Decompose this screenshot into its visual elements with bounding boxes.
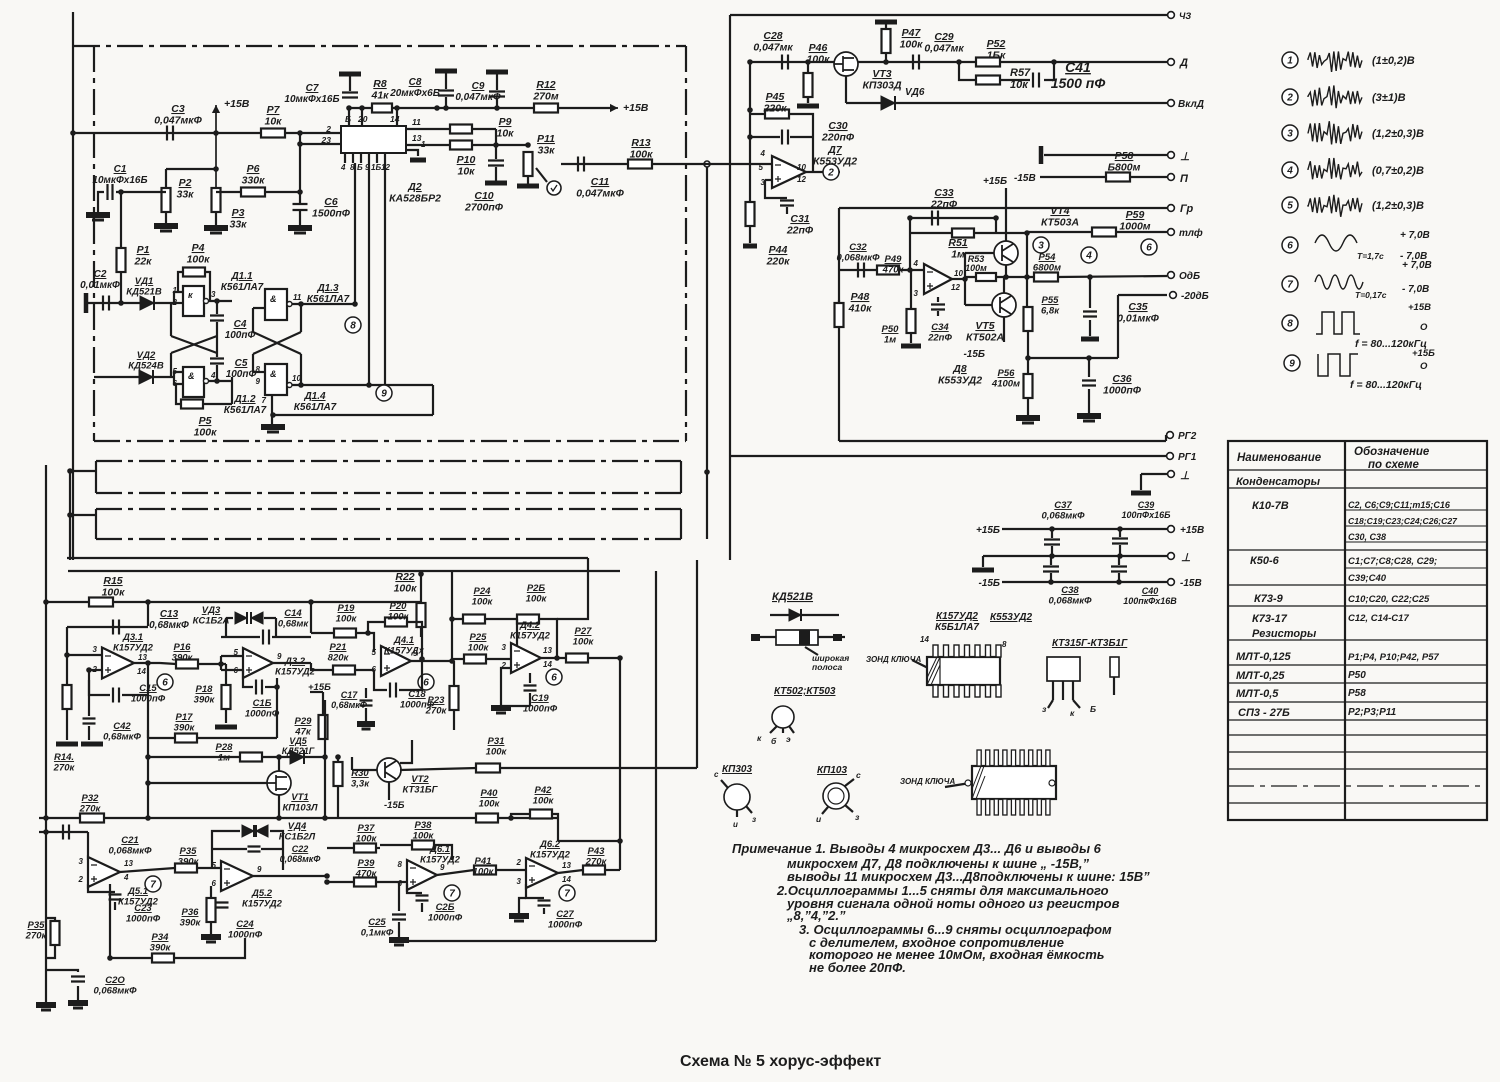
svg-text:С39;С40: С39;С40	[1348, 573, 1387, 584]
wire join branch	[1044, 62, 1054, 80]
wire R6 row y192	[216, 191, 300, 193]
svg-text:9: 9	[256, 377, 261, 386]
wire y757 row	[148, 756, 325, 758]
wire x110	[109, 884, 111, 958]
capacitor C9	[496, 72, 498, 90]
wire C34 stub	[937, 297, 939, 302]
svg-text:К553УД2: К553УД2	[990, 612, 1032, 623]
resistor R54	[1034, 273, 1058, 282]
wire R36/C24	[210, 886, 212, 898]
svg-text:6: 6	[162, 678, 168, 689]
node R46 top	[805, 59, 811, 65]
wire x148 down	[147, 602, 149, 626]
svg-text:6: 6	[551, 673, 557, 684]
legend item 5 waveform	[1308, 195, 1362, 217]
svg-text:Т=1,7с: Т=1,7с	[1357, 251, 1384, 261]
svg-text:VТ5: VТ5	[975, 320, 994, 332]
wire right vertical x697	[696, 560, 698, 768]
resistor R27	[566, 654, 588, 663]
ground R44	[749, 226, 751, 243]
svg-text:4: 4	[1286, 166, 1293, 177]
wire output row	[965, 276, 1035, 278]
svg-text:К50-6: К50-6	[1250, 555, 1280, 567]
svg-text:-15В: -15В	[1180, 578, 1202, 589]
resistor R14	[63, 685, 72, 709]
svg-text:100к: 100к	[473, 867, 495, 878]
svg-text:6800м: 6800м	[1033, 263, 1061, 274]
svg-text:Р44: Р44	[769, 244, 788, 256]
svg-text:6: 6	[212, 879, 217, 888]
wire R51 row	[910, 232, 1027, 234]
resistor R24	[463, 615, 485, 624]
svg-text:270к: 270к	[585, 857, 608, 868]
svg-text:1000пФ: 1000пФ	[126, 914, 161, 925]
svg-text:0,068мкФ: 0,068мкФ	[93, 986, 137, 997]
svg-text:5: 5	[372, 648, 377, 657]
svg-text:С24: С24	[236, 919, 254, 930]
svg-text:Р42: Р42	[535, 785, 553, 796]
wire y848 R37 row	[327, 847, 354, 849]
wire D4.2 out	[541, 657, 620, 659]
wire VT emitters	[1005, 265, 1007, 277]
svg-text:820к: 820к	[328, 653, 350, 664]
svg-text:С39: С39	[1138, 500, 1155, 510]
wire R25 row	[452, 658, 464, 660]
svg-text:К553УД2: К553УД2	[938, 375, 982, 387]
resistor R42	[530, 810, 552, 819]
capacitor C38	[1050, 556, 1052, 565]
svg-text:Д7: Д7	[827, 144, 843, 156]
svg-text:R13: R13	[631, 137, 650, 149]
svg-text:10: 10	[954, 269, 963, 278]
svg-text:0,01мкФ: 0,01мкФ	[80, 280, 120, 291]
capacitor C8	[445, 71, 447, 89]
svg-text:R57: R57	[1010, 67, 1031, 79]
svg-text:не более 20пФ.: не более 20пФ.	[809, 960, 906, 975]
svg-text:О: О	[1420, 361, 1428, 372]
bus dash-dot line 4	[96, 538, 681, 540]
wire P35	[46, 918, 55, 921]
svg-text:б: б	[771, 736, 777, 746]
svg-text:Р2;Р3;Р11: Р2;Р3;Р11	[1348, 707, 1397, 718]
wire X1 stubs	[170, 303, 172, 336]
node R1 join	[118, 300, 124, 306]
svg-text:1Бк: 1Бк	[987, 50, 1006, 62]
svg-text:Р20: Р20	[390, 601, 408, 612]
svg-text:Р23: Р23	[428, 695, 446, 706]
resistor R28	[240, 753, 262, 762]
wire D8 out to bases	[952, 278, 965, 280]
svg-text:Наименование: Наименование	[1237, 452, 1322, 464]
svg-text:33к: 33к	[176, 189, 194, 201]
wire x325	[324, 700, 326, 818]
svg-text:КП103Л: КП103Л	[282, 803, 318, 814]
capacitor C16	[256, 680, 262, 695]
svg-text:(1±0,2)В: (1±0,2)В	[1372, 55, 1415, 67]
svg-text:и: и	[733, 820, 738, 829]
arrow +15V right	[557, 107, 618, 109]
svg-text:С42: С42	[113, 721, 131, 732]
svg-text:Р2: Р2	[179, 177, 192, 189]
svg-text:Р45: Р45	[766, 91, 785, 103]
svg-text:5: 5	[1287, 201, 1293, 212]
DIP14 pins	[933, 645, 938, 657]
svg-text:К73-9: К73-9	[1254, 593, 1284, 605]
wire right vertical x620	[619, 658, 621, 870]
potentiometer R11	[525, 142, 531, 148]
callout 6 d41	[418, 674, 434, 690]
svg-text:100к: 100к	[102, 587, 126, 599]
svg-text:С11: С11	[591, 176, 610, 188]
capacitor C2	[103, 296, 109, 311]
resistor R51	[952, 229, 974, 238]
resistor R13	[628, 160, 652, 169]
svg-text:С6: С6	[324, 196, 338, 208]
svg-text:100пФх16Б: 100пФх16Б	[1122, 510, 1172, 520]
wire X2 stubs	[252, 308, 254, 332]
resistor R20	[385, 618, 407, 627]
legend item 9 callout	[1284, 355, 1300, 371]
wire +15 drop	[1005, 188, 1007, 241]
svg-text:Р47: Р47	[902, 27, 922, 39]
svg-text:10: 10	[292, 374, 301, 383]
pointer dip14	[912, 660, 928, 668]
KP303 pictorial	[724, 784, 750, 810]
wire D5.1 out	[120, 868, 175, 872]
svg-text:С7: С7	[306, 83, 319, 94]
capacitor C32	[858, 263, 864, 278]
node 0dB tap	[1087, 274, 1093, 280]
svg-text:С33: С33	[934, 187, 953, 199]
wire R19 row	[311, 632, 334, 634]
svg-text:С2: С2	[94, 269, 107, 280]
wire gnd terminal	[1044, 154, 1167, 156]
wire VD3 row	[226, 617, 233, 619]
feedback rail C33	[910, 217, 996, 219]
svg-text:13: 13	[138, 653, 147, 662]
capacitor C22	[248, 847, 261, 852]
legend item 4 waveform	[1308, 158, 1362, 179]
wire R15 row y602	[46, 601, 421, 603]
legend item 2 waveform	[1308, 85, 1362, 108]
svg-text:0,047мк: 0,047мк	[753, 42, 793, 54]
svg-text:С3: С3	[171, 103, 185, 115]
svg-text:100к: 100к	[486, 747, 508, 758]
wire R14 gnd	[66, 709, 68, 740]
svg-text:13: 13	[562, 861, 571, 870]
svg-text:Р1;Р4, Р10;Р42, Р57: Р1;Р4, Р10;Р42, Р57	[1348, 652, 1440, 663]
wire y818 long row	[39, 817, 558, 819]
svg-text:С1;С7;С8;С28, С29;: С1;С7;С8;С28, С29;	[1348, 556, 1437, 567]
svg-text:С10;С20, С22;С25: С10;С20, С22;С25	[1348, 594, 1430, 605]
wire vertical net to top (x707)	[706, 164, 708, 539]
svg-text:з: з	[752, 815, 756, 824]
wire D1.4 pin7 ground	[271, 395, 273, 425]
svg-text:R51: R51	[948, 237, 967, 249]
svg-text:4: 4	[1085, 251, 1092, 262]
wire x300 down to R6/C6	[299, 144, 301, 192]
capacitor C39	[1119, 529, 1121, 537]
svg-text:4: 4	[123, 873, 129, 882]
svg-text:11: 11	[412, 117, 421, 127]
wire C25	[398, 882, 400, 911]
capacitor C25	[392, 915, 406, 920]
wire R26 loop	[516, 619, 518, 647]
capacitor C4	[210, 316, 224, 321]
svg-text:23: 23	[321, 135, 332, 145]
svg-text:С5: С5	[235, 358, 248, 369]
wire R31 to right	[500, 767, 697, 769]
node bus-left junctions	[67, 468, 73, 474]
wire cross X2	[253, 332, 301, 354]
svg-text:Р55: Р55	[1042, 295, 1060, 306]
svg-text:3: 3	[1038, 241, 1044, 252]
node 300/144	[297, 141, 303, 147]
svg-text:Р19: Р19	[338, 603, 356, 614]
svg-text:VД6: VД6	[905, 87, 925, 98]
node split	[956, 59, 962, 65]
resistor R55	[1024, 307, 1033, 331]
wire R30	[337, 757, 339, 762]
svg-text:С13: С13	[160, 609, 179, 620]
svg-text:390к: 390к	[172, 653, 194, 664]
resistor R59	[1092, 228, 1116, 237]
resistor R21	[333, 666, 355, 675]
svg-text:Р58: Р58	[1348, 688, 1366, 699]
svg-text:с: с	[856, 770, 861, 780]
svg-text:13: 13	[543, 646, 552, 655]
bus dash-dot line 2	[96, 492, 681, 494]
wire D3.2 feed	[221, 655, 243, 657]
svg-text:С32: С32	[849, 242, 867, 253]
legend item 7 callout	[1282, 276, 1298, 292]
svg-text:К10-7В: К10-7В	[1252, 500, 1289, 512]
svg-text:С28: С28	[763, 30, 782, 42]
svg-text:1Б: 1Б	[371, 163, 381, 172]
legend item 3 waveform	[1308, 121, 1362, 144]
wire bus solid line	[67, 557, 588, 559]
resistor R15	[89, 598, 113, 607]
ground R50	[910, 333, 912, 343]
svg-text:-15Б: -15Б	[978, 578, 1000, 589]
wire C9 stem	[496, 98, 498, 108]
bar under C35	[1089, 320, 1091, 336]
svg-text:10к: 10к	[457, 166, 475, 178]
svg-text:С14: С14	[284, 608, 302, 619]
svg-text:С4: С4	[234, 319, 247, 330]
ground R11	[527, 175, 529, 184]
svg-text:Р38: Р38	[415, 820, 433, 831]
resistor R1	[117, 248, 126, 272]
wire R45 feedback	[750, 113, 765, 115]
capacitor C23	[109, 895, 122, 900]
resistor R19	[334, 629, 356, 638]
wire C13 row	[67, 626, 148, 628]
svg-text:3: 3	[1287, 129, 1293, 140]
svg-text:390к: 390к	[150, 943, 172, 954]
svg-text:Р21: Р21	[330, 642, 347, 653]
svg-text:по схеме: по схеме	[1368, 459, 1420, 471]
callout 9	[376, 385, 392, 401]
capacitor C20	[71, 977, 85, 982]
svg-text:к: к	[188, 290, 193, 300]
svg-text:22пФ: 22пФ	[930, 199, 958, 211]
inner block left frame	[838, 208, 840, 441]
wire bottom y941	[399, 940, 656, 942]
svg-text:С27: С27	[556, 909, 574, 920]
svg-text:С38: С38	[1061, 585, 1079, 596]
resistor R35	[175, 864, 197, 873]
terminal P	[1168, 174, 1175, 181]
svg-text:VД1: VД1	[135, 276, 153, 287]
svg-text:Р59: Р59	[1126, 209, 1145, 221]
svg-text:Р50: Р50	[1348, 670, 1366, 681]
wire pin line x355	[354, 163, 356, 304]
svg-text:7: 7	[262, 396, 267, 405]
svg-text:МЛТ-0,125: МЛТ-0,125	[1236, 651, 1292, 663]
table divider	[1344, 441, 1346, 820]
wire VT5 collector	[1003, 317, 1005, 342]
svg-text:100к: 100к	[472, 597, 494, 608]
wire C4/C5 column	[216, 301, 218, 314]
svg-text:100к: 100к	[187, 254, 211, 266]
svg-text:Р43: Р43	[588, 846, 606, 857]
svg-text:С30, С38: С30, С38	[1348, 532, 1386, 542]
svg-text:К157УД2: К157УД2	[936, 611, 978, 622]
capacitor C26	[416, 896, 429, 901]
svg-text:12: 12	[797, 175, 806, 184]
wire gnd rail	[983, 555, 1167, 557]
resistor R9	[450, 125, 472, 134]
svg-text:Р7: Р7	[267, 104, 281, 116]
wire R22 stem	[420, 571, 422, 604]
op-amp D4.1	[381, 646, 411, 676]
svg-text:-20дБ: -20дБ	[1181, 291, 1209, 302]
capacitor C19	[524, 686, 537, 691]
resistor R17	[175, 734, 197, 743]
terminal gnd2	[1141, 473, 1167, 475]
svg-text:1000пФ: 1000пФ	[1103, 385, 1142, 397]
svg-text:Р56: Р56	[998, 368, 1016, 379]
svg-text:тлф: тлф	[1179, 227, 1203, 239]
svg-text:Б: Б	[357, 163, 363, 172]
svg-text:Резисторы: Резисторы	[1252, 628, 1317, 640]
svg-text:1000пФ: 1000пФ	[428, 913, 463, 924]
wire R41 to D6.2	[496, 869, 526, 871]
wire C20	[46, 970, 78, 972]
svg-text:VТ1: VТ1	[291, 792, 308, 803]
resistor R36	[207, 898, 216, 922]
svg-text:VД5: VД5	[289, 736, 308, 746]
svg-text:(0,7±0,2)В: (0,7±0,2)В	[1372, 165, 1424, 177]
op-amp D6.2	[526, 858, 558, 888]
svg-text:6,8к: 6,8к	[1041, 306, 1060, 317]
capacitor C31	[765, 180, 787, 198]
wire R16 row	[160, 663, 176, 664]
svg-text:33к: 33к	[229, 219, 247, 231]
svg-text:10мкФх16Б: 10мкФх16Б	[92, 175, 147, 186]
svg-text:220к: 220к	[763, 103, 788, 115]
resistor R23	[450, 686, 459, 710]
terminal Gr	[1168, 205, 1175, 212]
svg-text:С25: С25	[368, 917, 386, 928]
callout 7 d61	[444, 885, 460, 901]
ground on gnd rail	[982, 556, 984, 567]
svg-text:Р18: Р18	[196, 684, 214, 695]
wire R2 stem	[165, 169, 167, 189]
R11 wiper	[536, 168, 547, 182]
ground D6 area	[509, 913, 529, 919]
svg-text:100к: 100к	[526, 594, 548, 605]
svg-text:0,047мкФ: 0,047мкФ	[576, 188, 624, 200]
svg-text:10к: 10к	[264, 116, 282, 128]
svg-text:Д1.2: Д1.2	[233, 394, 256, 405]
node x707 junctions	[704, 161, 710, 167]
svg-text:С22: С22	[292, 844, 309, 854]
wire P terminal	[1040, 176, 1167, 178]
gate D1.2	[183, 367, 204, 397]
svg-text:Р5: Р5	[199, 415, 212, 427]
svg-text:4: 4	[210, 371, 216, 380]
dash-dot screen border top-left block	[74, 45, 686, 47]
resistor R5	[181, 400, 203, 409]
capacitor C15	[147, 663, 149, 695]
svg-text:(1,2±0,3)В: (1,2±0,3)В	[1372, 200, 1424, 212]
svg-text:КТ502;КТ503: КТ502;КТ503	[774, 686, 836, 697]
wire solid bus y571	[68, 570, 620, 572]
svg-text:8: 8	[398, 860, 403, 869]
terminal gnd1	[1168, 152, 1175, 159]
svg-text:270к: 270к	[25, 931, 48, 942]
svg-text:К157УД2: К157УД2	[113, 643, 154, 654]
svg-text:100пФ: 100пФ	[226, 369, 257, 380]
diode pair VD4	[242, 825, 254, 837]
resistor R49	[877, 266, 899, 275]
wire VT3 source down	[845, 76, 847, 103]
ground C20	[68, 1000, 88, 1006]
capacitor C28	[782, 55, 788, 70]
wire R55-R56	[1027, 331, 1029, 375]
svg-text:К157УД2: К157УД2	[530, 850, 571, 861]
svg-text:-15В: -15В	[1014, 173, 1036, 184]
svg-text:14: 14	[920, 635, 929, 644]
ground C42	[81, 742, 103, 747]
svg-text:С8: С8	[409, 77, 422, 88]
svg-text:-15Б: -15Б	[384, 800, 405, 811]
terminal 0dB	[1168, 272, 1175, 279]
bus dash-dot line 1	[96, 460, 681, 462]
svg-text:100к: 100к	[468, 643, 490, 654]
callout 6 d42	[546, 669, 562, 685]
svg-text:ОдБ: ОдБ	[1179, 271, 1200, 282]
wire D1.2 inputs	[174, 372, 183, 377]
svg-text:К73-17: К73-17	[1252, 613, 1288, 625]
svg-text:1м: 1м	[218, 753, 230, 764]
svg-text:С23: С23	[134, 903, 152, 914]
wire R42 jog	[511, 814, 530, 818]
svg-text:КТ502А: КТ502А	[966, 332, 1004, 344]
svg-text:390к: 390к	[194, 695, 216, 706]
resistor R29	[319, 715, 328, 739]
node R22 top	[418, 571, 424, 577]
ground C36	[1088, 389, 1090, 413]
svg-text:КП303Д: КП303Д	[862, 80, 902, 92]
capacitor C18	[390, 683, 396, 698]
terminal RG2	[1167, 432, 1174, 439]
svg-text:100пФ: 100пФ	[225, 330, 256, 341]
wire D6.2 out	[558, 870, 583, 873]
svg-text:14: 14	[543, 660, 552, 669]
